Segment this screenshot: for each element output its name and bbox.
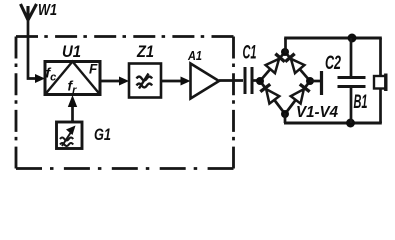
bridge corner junction right xyxy=(306,77,314,85)
wire U1 to Z1 xyxy=(100,80,122,83)
svg-text:F: F xyxy=(89,62,98,77)
svg-text:C2: C2 xyxy=(325,53,341,74)
wire top rail xyxy=(284,36,382,39)
capacitor C2 plates xyxy=(338,78,366,87)
diode V1 (upper-left edge) xyxy=(266,54,285,73)
capacitor C2 branch wire lower xyxy=(350,88,353,123)
diode bridge V1-V4 diamond xyxy=(260,52,310,114)
generator G1 symbol (tildes with diagonal arrow) xyxy=(60,126,76,147)
phone B1 branch wire lower xyxy=(379,89,382,124)
capacitor C1 xyxy=(245,67,252,94)
arrowhead into Z1 xyxy=(119,77,129,86)
phone B1 branch wire upper xyxy=(379,38,382,76)
filter symbol (two tildes with slash) xyxy=(137,74,153,89)
phone B1 symbol bar xyxy=(384,74,387,92)
enclosure dash-dot box left edge xyxy=(15,37,18,169)
enclosure dash-dot box top edge xyxy=(16,35,234,38)
converter U1 diagonals xyxy=(45,62,100,95)
wire A1 to C1 xyxy=(219,79,243,82)
wire bridge top stub xyxy=(284,38,287,53)
svg-text:Z1: Z1 xyxy=(136,42,154,61)
svg-text:G1: G1 xyxy=(94,126,111,144)
arrowhead into U1 xyxy=(35,74,45,83)
wire bottom rail xyxy=(284,121,382,124)
wire G1 to U1 xyxy=(71,101,74,122)
antenna W1 xyxy=(21,4,37,20)
wire C1 to bridge xyxy=(252,79,261,82)
svg-text:V1-V4: V1-V4 xyxy=(296,104,338,121)
capacitor C2 branch wire upper xyxy=(350,38,353,76)
junction dot top xyxy=(348,34,357,43)
svg-text:B1: B1 xyxy=(354,92,368,113)
wire bridge bottom stub xyxy=(284,113,287,123)
amplifier A1 triangle xyxy=(191,64,220,99)
enclosure dash-dot box right edge xyxy=(232,37,235,169)
svg-text:A1: A1 xyxy=(187,48,202,63)
svg-text:U1: U1 xyxy=(62,42,81,61)
enclosure dash-dot box bottom edge xyxy=(16,167,234,170)
filter Z1 box xyxy=(129,64,161,98)
wire Z1 to A1 xyxy=(161,80,183,83)
arrowhead into A1 xyxy=(181,77,191,86)
generator G1 box xyxy=(57,122,83,149)
diode V3 (lower-left edge) xyxy=(260,84,279,103)
wire bridge output xyxy=(310,80,320,83)
diode V4 (lower-right edge) xyxy=(291,84,310,103)
bridge corner junction bottom xyxy=(281,110,289,118)
arrowhead into U1 bottom xyxy=(68,95,77,107)
bridge output plate xyxy=(320,71,323,95)
converter U1 box xyxy=(45,62,100,95)
bridge corner junction top xyxy=(281,48,289,56)
svg-text:C1: C1 xyxy=(243,43,257,64)
phone B1 symbol square xyxy=(374,76,386,89)
bridge corner junction left xyxy=(256,77,264,85)
wire antenna down-lead to U1 xyxy=(28,19,38,79)
diode V2 (upper-right edge) xyxy=(285,54,304,73)
svg-text:W1: W1 xyxy=(38,2,57,19)
junction dot bottom xyxy=(346,119,355,128)
